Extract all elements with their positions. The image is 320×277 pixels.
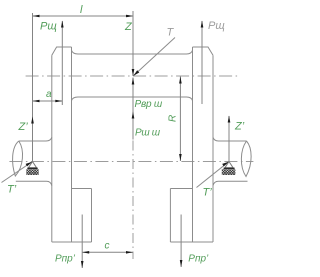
svg-text:T’: T’ [7, 184, 17, 196]
T' leader left [2, 162, 33, 183]
dim a left arrow [33, 100, 40, 103]
left Ppr force line [81, 215, 83, 269]
T leader line [134, 38, 175, 76]
svg-text:Рщ: Рщ [208, 20, 225, 32]
right Psh force line [201, 21, 203, 104]
svg-text:Z’: Z’ [234, 121, 245, 133]
dim a right arrow [55, 100, 62, 103]
svg-text:Рпр’: Рпр’ [55, 254, 76, 265]
T leader arrow [133, 70, 139, 76]
right Ppr force line [180, 215, 182, 268]
left Psh arrow [61, 21, 64, 28]
Z arrow [132, 69, 135, 76]
svg-text:Рщ: Рщ [40, 21, 57, 33]
svg-text:R: R [168, 115, 179, 122]
dim c right arrow [126, 251, 133, 254]
R top arrow [179, 77, 182, 84]
Z' right arrow [228, 116, 231, 123]
right Ppr arrow [180, 260, 183, 267]
R bottom arrow [179, 154, 182, 161]
left counterweight [72, 189, 92, 243]
left Psh force line [61, 21, 63, 105]
T' right arrow [222, 162, 229, 167]
crankpin bottom edge with fillets [72, 97, 193, 101]
svg-text:Рш ш: Рш ш [135, 128, 161, 139]
dimension l line [33, 15, 134, 17]
left Ppr arrow [81, 261, 84, 268]
right counterweight [170, 189, 192, 243]
left support pivot [26, 162, 38, 176]
Z force line [132, 11, 134, 76]
dim l left arrow [33, 15, 40, 18]
crankpin top edge with fillets [72, 50, 193, 54]
left main journal [13, 137, 52, 185]
Pshsh arrow [132, 112, 135, 119]
Pvrsh and Pshsh force line [132, 78, 134, 140]
right web outline [170, 47, 213, 242]
svg-text:Рпр’: Рпр’ [188, 254, 209, 265]
R dimension line [179, 77, 181, 162]
dimension c line [82, 251, 133, 253]
crank center vertical centerline [132, 141, 134, 260]
svg-text:a: a [46, 89, 52, 100]
T' left arrow [26, 162, 33, 167]
dimension a line [33, 100, 63, 102]
svg-text:c: c [105, 241, 110, 252]
Pvrsh arrow [132, 78, 135, 85]
svg-text:Рвр ш: Рвр ш [135, 99, 163, 110]
right support pivot [222, 162, 236, 176]
svg-text:T’: T’ [203, 187, 213, 199]
left support extension line with Z' force [32, 13, 34, 161]
dim c left arrow [82, 251, 89, 254]
main journal axis centerline [9, 161, 253, 163]
shaft-break lens right [241, 141, 251, 177]
right main journal [213, 137, 251, 185]
crankpin axis centerline [26, 75, 239, 77]
shaft-break lens left [13, 141, 23, 176]
svg-text:Z’: Z’ [18, 121, 29, 133]
T' leader right [197, 162, 229, 188]
svg-text:Z: Z [124, 21, 133, 33]
dim l right arrow [126, 15, 133, 18]
Z' left arrow [31, 117, 34, 124]
right Z' force line [228, 116, 230, 161]
right Psh arrow [201, 21, 204, 28]
left web outline [52, 47, 92, 242]
